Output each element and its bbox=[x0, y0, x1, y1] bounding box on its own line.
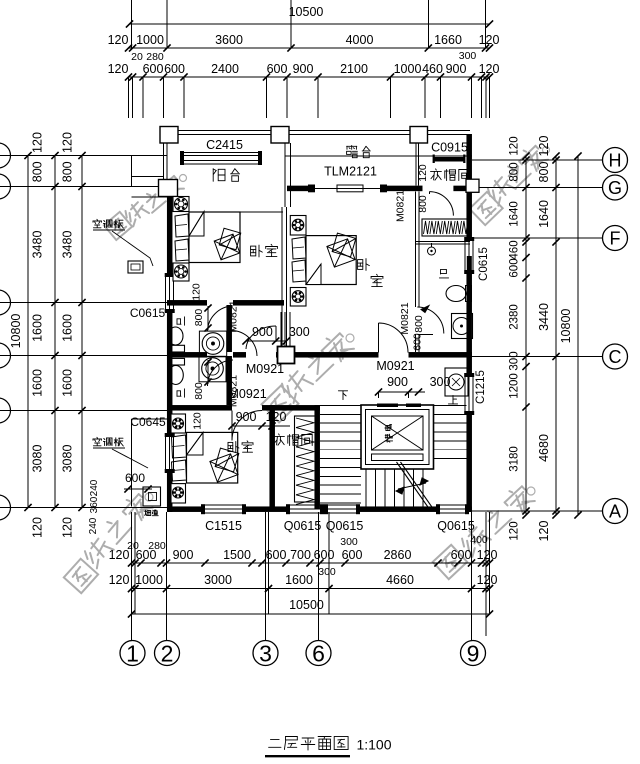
junction box left wall bbox=[159, 180, 178, 197]
svg-text:1600: 1600 bbox=[61, 314, 75, 342]
axis circle G bbox=[603, 175, 628, 200]
room label 卧室 bedroom3 bbox=[228, 442, 233, 451]
quilt bedroom2 bbox=[327, 239, 355, 267]
svg-text:3080: 3080 bbox=[61, 445, 75, 473]
svg-text:1600: 1600 bbox=[31, 369, 45, 397]
svg-text:120: 120 bbox=[479, 62, 500, 76]
title 二层平面图 bbox=[271, 739, 280, 741]
partition bedroom1 bedroom2 thin lines bbox=[281, 207, 283, 352]
svg-text:3080: 3080 bbox=[31, 445, 45, 473]
lamp bedroom2 bottom bbox=[292, 291, 304, 303]
bedside table bedroom1 top bbox=[173, 197, 189, 212]
C-axis wall left segments bbox=[167, 352, 207, 358]
AC platform outline top-left bbox=[131, 156, 133, 187]
lamp bedroom3 bottom bbox=[173, 487, 184, 498]
window C1215 right wall band bbox=[464, 377, 466, 411]
balcony eave lines left bbox=[132, 176, 164, 178]
watermark registered mark bottom-left bbox=[145, 493, 153, 501]
bath1 toilet bbox=[168, 327, 183, 345]
wardrobe hatch bedroom3 closet bbox=[295, 416, 317, 502]
svg-text:M0921: M0921 bbox=[246, 362, 284, 376]
watermark registered mark top-left bbox=[180, 175, 187, 182]
svg-text:900: 900 bbox=[173, 548, 194, 562]
svg-text:800: 800 bbox=[413, 315, 425, 333]
svg-text:460: 460 bbox=[422, 62, 443, 76]
bath block mid vertical wall bbox=[226, 305, 232, 352]
svg-text:300: 300 bbox=[318, 566, 336, 578]
stair label 上 bbox=[452, 395, 454, 404]
wall bedroom3 cloak vertical bbox=[269, 405, 275, 509]
svg-text:10800: 10800 bbox=[9, 314, 23, 349]
window C1515 bottom wall bbox=[205, 504, 242, 506]
svg-text:800: 800 bbox=[31, 161, 45, 182]
svg-text:M0821: M0821 bbox=[394, 190, 406, 222]
watermark 图纸之家 bottom-left ascending bbox=[64, 559, 98, 593]
svg-text:C0915: C0915 bbox=[431, 141, 468, 155]
window C0915 band bbox=[428, 155, 466, 157]
G-axis wall pier at cloak door bbox=[418, 186, 423, 192]
svg-text:C2415: C2415 bbox=[206, 138, 243, 152]
bath right label 卫 bbox=[441, 269, 447, 271]
C-axis wall center part bbox=[276, 352, 379, 358]
svg-text:800: 800 bbox=[509, 162, 521, 181]
G-axis wall bedroom2 left segment bbox=[287, 186, 314, 192]
top grid extension lines bbox=[131, 0, 133, 48]
svg-text:9: 9 bbox=[467, 640, 480, 666]
svg-text:3480: 3480 bbox=[61, 231, 75, 259]
stairwell shaft bottom bar bbox=[372, 454, 424, 461]
svg-text:120: 120 bbox=[109, 573, 130, 587]
svg-text:120: 120 bbox=[479, 33, 500, 47]
room label 卧室 bedroom2 bbox=[358, 260, 363, 270]
lamp bedroom2 top bbox=[292, 219, 304, 231]
pillow bedroom2 upper bbox=[292, 237, 306, 259]
stairwell shaft outer bbox=[361, 405, 434, 469]
svg-text:Q0615: Q0615 bbox=[437, 519, 475, 533]
column top-right bbox=[410, 127, 428, 144]
svg-text:2100: 2100 bbox=[340, 62, 368, 76]
balcony terrace divider wall double line bbox=[284, 143, 286, 207]
bath2 label 卫 bbox=[177, 389, 185, 397]
toilet right bath bbox=[446, 286, 466, 302]
svg-text:900: 900 bbox=[446, 62, 467, 76]
lamp bedroom1 top bbox=[175, 198, 188, 211]
svg-text:460: 460 bbox=[509, 240, 521, 259]
stair treads left flight bbox=[320, 405, 361, 407]
stairwell label vertical bbox=[385, 425, 392, 431]
svg-text:1600: 1600 bbox=[285, 573, 313, 587]
watermark 图纸之家 top-left ascending bbox=[104, 212, 132, 240]
svg-text:C1515: C1515 bbox=[205, 519, 242, 533]
room label 衣帽间 top right bbox=[435, 169, 438, 170]
svg-text:1000: 1000 bbox=[136, 33, 164, 47]
svg-text:120: 120 bbox=[61, 132, 75, 153]
svg-text:1600: 1600 bbox=[61, 369, 75, 397]
door bath1 lower arc bbox=[232, 331, 258, 357]
svg-text:400: 400 bbox=[470, 534, 488, 546]
svg-text:1500: 1500 bbox=[223, 548, 251, 562]
svg-text:10500: 10500 bbox=[289, 5, 324, 19]
left dimension vertical line grouped bbox=[54, 156, 56, 508]
wardrobe hatch top right bbox=[422, 219, 468, 236]
svg-text:600: 600 bbox=[342, 548, 363, 562]
stair treads bottom flight bbox=[365, 469, 367, 507]
watermark 图纸之家 bottom-right ascending bbox=[433, 545, 467, 579]
svg-text:3440: 3440 bbox=[537, 303, 551, 331]
svg-text:1: 1 bbox=[126, 640, 139, 666]
window Q0615 bottom wall 1 bbox=[290, 504, 320, 506]
room label 露台 bbox=[347, 145, 357, 147]
svg-text:TLM2121: TLM2121 bbox=[324, 165, 377, 179]
top dimension line second row bbox=[129, 47, 490, 49]
left dimension vertical line total 10800 bbox=[27, 156, 29, 508]
bedside table bedroom2 bottom bbox=[290, 288, 306, 307]
svg-text:600: 600 bbox=[509, 258, 521, 277]
boundary line balcony bedroom1 bbox=[240, 211, 283, 213]
svg-text:M0921: M0921 bbox=[228, 387, 266, 401]
column top-mid bbox=[271, 127, 289, 144]
svg-text:800: 800 bbox=[193, 309, 205, 327]
fold bedroom1 bbox=[189, 212, 204, 237]
bedside table bedroom3 top bbox=[171, 414, 186, 433]
axis circle 3 bbox=[253, 641, 278, 666]
svg-text:600: 600 bbox=[125, 471, 145, 485]
wall cloak stairhall vertical bbox=[314, 405, 320, 509]
flue box bottom-left bbox=[143, 487, 161, 506]
stairwell top edge door marks bbox=[377, 404, 398, 408]
svg-text:F: F bbox=[610, 228, 621, 248]
watermark registered mark bottom-right bbox=[527, 487, 535, 495]
corridor column box bbox=[278, 347, 295, 364]
svg-text:10800: 10800 bbox=[559, 309, 573, 344]
svg-text:1640: 1640 bbox=[509, 201, 521, 227]
washbasin stair hall corner bbox=[445, 368, 468, 396]
svg-text:2860: 2860 bbox=[384, 548, 412, 562]
svg-text:120: 120 bbox=[509, 136, 521, 155]
svg-text:300: 300 bbox=[509, 351, 521, 370]
watermark 图纸之家 right ascending bbox=[469, 192, 502, 225]
room label 卧室 bedroom1 bbox=[251, 246, 256, 256]
cloakroom F-axis wall thin bbox=[416, 240, 471, 242]
svg-text:300: 300 bbox=[289, 325, 310, 339]
svg-text:280: 280 bbox=[148, 540, 166, 552]
svg-text:A: A bbox=[609, 501, 621, 521]
svg-text:1000: 1000 bbox=[135, 573, 163, 587]
svg-text:600: 600 bbox=[412, 333, 424, 351]
window Q0615 bottom wall 3 bbox=[440, 504, 465, 506]
svg-text:2380: 2380 bbox=[509, 304, 521, 330]
stair label 下 bbox=[338, 390, 347, 392]
svg-text:600: 600 bbox=[164, 62, 185, 76]
svg-text:120: 120 bbox=[61, 517, 75, 538]
stairwell shaft core with cross bbox=[372, 416, 424, 450]
bedroom3 top wall bbox=[167, 405, 232, 411]
duct lines above column bbox=[280, 312, 282, 346]
AC platform leader top-left bbox=[112, 231, 153, 266]
svg-text:280: 280 bbox=[146, 51, 164, 63]
svg-text:1200: 1200 bbox=[509, 373, 521, 399]
axis circle 2 bbox=[155, 641, 180, 666]
svg-text:300: 300 bbox=[459, 50, 477, 62]
svg-text:120: 120 bbox=[108, 62, 129, 76]
svg-text:700: 700 bbox=[290, 548, 311, 562]
svg-text:1660: 1660 bbox=[434, 33, 462, 47]
svg-text:2400: 2400 bbox=[211, 62, 239, 76]
svg-text:600: 600 bbox=[143, 62, 164, 76]
cloakroom bath left wall thin double bbox=[415, 192, 417, 307]
svg-text:G: G bbox=[608, 178, 622, 198]
fold bedroom3 bbox=[187, 432, 204, 455]
AC platform label bottom-left 空调板 bbox=[96, 436, 99, 439]
svg-text:120: 120 bbox=[108, 33, 129, 47]
column top-left bbox=[160, 127, 178, 144]
watermark 图纸之家 center ascending bbox=[262, 386, 299, 423]
svg-text:2: 2 bbox=[161, 640, 174, 666]
svg-text:600: 600 bbox=[451, 548, 472, 562]
pillow bedroom2 lower bbox=[292, 260, 306, 282]
window C0615 left wall bbox=[165, 277, 167, 309]
svg-text:6: 6 bbox=[312, 640, 325, 666]
right dimension vertical mid line bbox=[555, 156, 557, 515]
svg-text:120: 120 bbox=[192, 412, 204, 430]
svg-text:4000: 4000 bbox=[346, 33, 374, 47]
stair treads right flight bbox=[434, 405, 467, 407]
axis circle F bbox=[603, 226, 628, 251]
terrace H axis inner line bbox=[285, 155, 428, 157]
svg-text:120: 120 bbox=[31, 132, 45, 153]
flue label bbox=[145, 510, 147, 513]
G-axis wall right segment bbox=[386, 186, 417, 192]
window C2415 band bbox=[184, 151, 258, 153]
left dimension vertical line inner bbox=[81, 156, 83, 508]
bath2 washer in box bbox=[199, 357, 226, 382]
quilt bedroom1 bbox=[214, 234, 240, 260]
svg-text:120: 120 bbox=[537, 521, 551, 542]
svg-text:M0821: M0821 bbox=[399, 302, 411, 334]
bedside table bedroom1 bottom bbox=[173, 263, 189, 281]
svg-text:120: 120 bbox=[477, 548, 498, 562]
pillow bedroom3 upper bbox=[172, 435, 187, 458]
pillow bedroom3 lower bbox=[172, 460, 187, 481]
svg-text:20: 20 bbox=[127, 540, 139, 552]
svg-text:1000: 1000 bbox=[394, 62, 422, 76]
top dimension line third row bbox=[129, 76, 490, 78]
svg-text:120: 120 bbox=[537, 136, 551, 157]
bath2 toilet bbox=[168, 366, 183, 385]
svg-text:900: 900 bbox=[293, 62, 314, 76]
C-axis wall right part bbox=[409, 352, 473, 358]
AC platform outline bottom-left bbox=[131, 419, 133, 507]
bottom main dim row bbox=[132, 588, 490, 590]
svg-text:1600: 1600 bbox=[31, 314, 45, 342]
svg-text:120: 120 bbox=[509, 521, 521, 540]
room label 阳台 bbox=[212, 169, 214, 182]
lamp bedroom1 bottom bbox=[175, 265, 188, 278]
axis circle A bbox=[603, 499, 628, 524]
bedside table bedroom2 top bbox=[290, 216, 306, 236]
svg-text:800: 800 bbox=[537, 162, 551, 183]
svg-text:C0615: C0615 bbox=[130, 306, 166, 320]
bedside table bedroom3 bottom bbox=[171, 484, 186, 503]
stairwell shaft inner frame bbox=[366, 410, 430, 465]
window Q0615 bottom wall 2 bbox=[328, 504, 356, 506]
sliding door TLM2121 line and jambs bbox=[314, 187, 386, 189]
door M0921 bedroom2 entry arc bbox=[379, 323, 409, 353]
svg-text:H: H bbox=[609, 150, 622, 170]
svg-text:C0645: C0645 bbox=[130, 415, 166, 429]
bottom extension lines bbox=[131, 512, 133, 640]
bed bedroom1 mattress bbox=[189, 212, 240, 263]
lamp bedroom3 top bbox=[173, 418, 184, 429]
quilt bedroom3 bbox=[210, 454, 238, 482]
AC platform label top-left 空调板 bbox=[96, 218, 99, 221]
bed bedroom3 mattress bbox=[187, 432, 238, 483]
left axis lines bbox=[0, 155, 167, 157]
svg-text:C0615: C0615 bbox=[478, 247, 490, 281]
svg-text:360: 360 bbox=[89, 496, 100, 513]
svg-text:120: 120 bbox=[266, 410, 287, 424]
stair break line with arrows bbox=[397, 462, 431, 510]
axis circle 1 bbox=[120, 641, 145, 666]
bath1 label 卫 bbox=[177, 317, 185, 325]
svg-text:800: 800 bbox=[193, 382, 205, 400]
svg-text:3600: 3600 bbox=[215, 33, 243, 47]
svg-text:4660: 4660 bbox=[386, 573, 414, 587]
door M0821 cloakroom arc bbox=[429, 192, 453, 216]
svg-text:M0921: M0921 bbox=[376, 359, 414, 373]
svg-text:120: 120 bbox=[477, 573, 498, 587]
door M0921 corridor arc bbox=[246, 326, 276, 349]
fold bedroom2 bbox=[306, 264, 321, 285]
svg-text:900: 900 bbox=[236, 410, 257, 424]
svg-text:900: 900 bbox=[387, 375, 408, 389]
svg-text:C: C bbox=[609, 347, 622, 367]
terrace right divider wall upper thin double bbox=[415, 143, 417, 186]
window C0615 right wall band bbox=[464, 241, 466, 270]
door M0821 bath1 arc bbox=[208, 306, 234, 332]
watermark registered mark center bbox=[346, 334, 354, 342]
axis circle H bbox=[603, 148, 628, 173]
svg-text:600: 600 bbox=[267, 62, 288, 76]
door M0821 right bath arc bbox=[417, 307, 444, 334]
balcony left wall double line bbox=[163, 143, 165, 182]
bottom total dim 10500 bbox=[132, 613, 490, 615]
right dimension vertical inner line bbox=[525, 156, 527, 515]
right axis lines bbox=[472, 159, 603, 161]
axis circle 9 bbox=[461, 641, 486, 666]
svg-text:900: 900 bbox=[252, 325, 273, 339]
bottom fine dim row bbox=[132, 562, 490, 564]
svg-text:600: 600 bbox=[314, 548, 335, 562]
svg-text:1640: 1640 bbox=[537, 200, 551, 228]
bed bedroom2 mattress bbox=[306, 236, 356, 285]
svg-text:120: 120 bbox=[191, 283, 203, 301]
door M0821 bath2 arc bbox=[208, 360, 234, 386]
washer right bath bbox=[452, 314, 473, 339]
svg-text:4680: 4680 bbox=[537, 434, 551, 462]
junction box right wall G level bbox=[466, 179, 479, 192]
terrace parapet outer edge bbox=[160, 130, 470, 132]
G-axis wall right of cloak door bbox=[453, 186, 472, 192]
svg-text:240: 240 bbox=[88, 517, 99, 534]
svg-text:3480: 3480 bbox=[31, 231, 45, 259]
pillow bedroom1 lower bbox=[175, 239, 189, 261]
svg-text:120: 120 bbox=[31, 517, 45, 538]
window C0645 left wall bbox=[165, 437, 167, 469]
svg-text:Q0615: Q0615 bbox=[284, 519, 322, 533]
svg-text:M0821: M0821 bbox=[228, 300, 240, 332]
axis circle 6 bbox=[306, 641, 331, 666]
svg-text:3: 3 bbox=[259, 640, 272, 666]
axis circle C bbox=[603, 344, 628, 369]
room label 衣帽间 bottom bbox=[278, 434, 281, 435]
bath1 washer in box bbox=[199, 331, 226, 356]
svg-text:C1215: C1215 bbox=[475, 370, 487, 404]
svg-text:800: 800 bbox=[61, 161, 75, 182]
watermark registered mark right bbox=[543, 147, 550, 154]
top dimension line total 10500 bbox=[130, 23, 490, 25]
right outer wall bbox=[466, 134, 472, 241]
door M0921 bedroom3 leaf and arc bbox=[231, 411, 233, 441]
svg-text:3000: 3000 bbox=[204, 573, 232, 587]
svg-text:Q0615: Q0615 bbox=[326, 519, 364, 533]
left axis circles partial bbox=[0, 143, 11, 168]
bedroom1 bottom wall left segment bbox=[167, 300, 207, 306]
bedroom1 bottom wall right segment bbox=[233, 300, 284, 306]
right dimension vertical outer 10800 bbox=[577, 156, 579, 515]
AC platform box top-left bbox=[128, 261, 143, 273]
svg-text:240: 240 bbox=[89, 479, 100, 496]
svg-text:3180: 3180 bbox=[509, 446, 521, 472]
AC platform leader bottom-left bbox=[112, 449, 148, 468]
svg-text:1:100: 1:100 bbox=[356, 737, 391, 753]
bath right ceiling lamp bbox=[428, 247, 436, 255]
bottom outer wall bbox=[167, 506, 205, 512]
svg-text:300: 300 bbox=[340, 536, 358, 548]
pillow bedroom1 upper bbox=[175, 214, 189, 237]
svg-text:300: 300 bbox=[430, 375, 451, 389]
left outer wall bbox=[167, 197, 173, 278]
svg-text:20: 20 bbox=[131, 51, 143, 63]
